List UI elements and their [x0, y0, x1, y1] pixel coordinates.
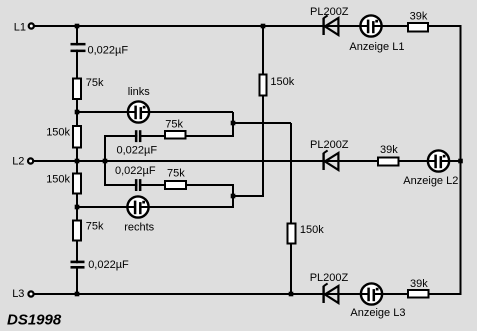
svg-text:L3: L3: [12, 288, 24, 300]
svg-text:150k: 150k: [300, 224, 324, 236]
svg-text:39k: 39k: [380, 144, 398, 156]
svg-text:0,022µF: 0,022µF: [88, 44, 129, 56]
svg-text:75k: 75k: [165, 118, 183, 130]
svg-text:150k: 150k: [46, 127, 70, 139]
svg-text:Anzeige L2: Anzeige L2: [403, 175, 458, 187]
svg-text:links: links: [128, 86, 151, 98]
svg-text:75k: 75k: [86, 77, 104, 89]
svg-text:L1: L1: [14, 22, 26, 34]
svg-text:0,022µF: 0,022µF: [117, 144, 158, 156]
svg-text:PL200Z: PL200Z: [310, 6, 349, 18]
svg-text:PL200Z: PL200Z: [310, 272, 349, 284]
svg-text:75k: 75k: [86, 221, 104, 233]
svg-text:Anzeige L1: Anzeige L1: [349, 41, 404, 53]
svg-text:150k: 150k: [270, 76, 294, 88]
svg-text:rechts: rechts: [124, 222, 154, 234]
svg-text:DS1998: DS1998: [7, 312, 62, 329]
svg-text:39k: 39k: [410, 11, 428, 23]
svg-text:L2: L2: [12, 156, 24, 168]
svg-text:75k: 75k: [167, 168, 185, 180]
svg-text:0,022µF: 0,022µF: [115, 165, 156, 177]
svg-text:39k: 39k: [410, 278, 428, 290]
svg-text:Anzeige L3: Anzeige L3: [350, 307, 405, 319]
svg-text:150k: 150k: [46, 173, 70, 185]
svg-text:PL200Z: PL200Z: [310, 139, 349, 151]
svg-text:0,022µF: 0,022µF: [88, 259, 129, 271]
